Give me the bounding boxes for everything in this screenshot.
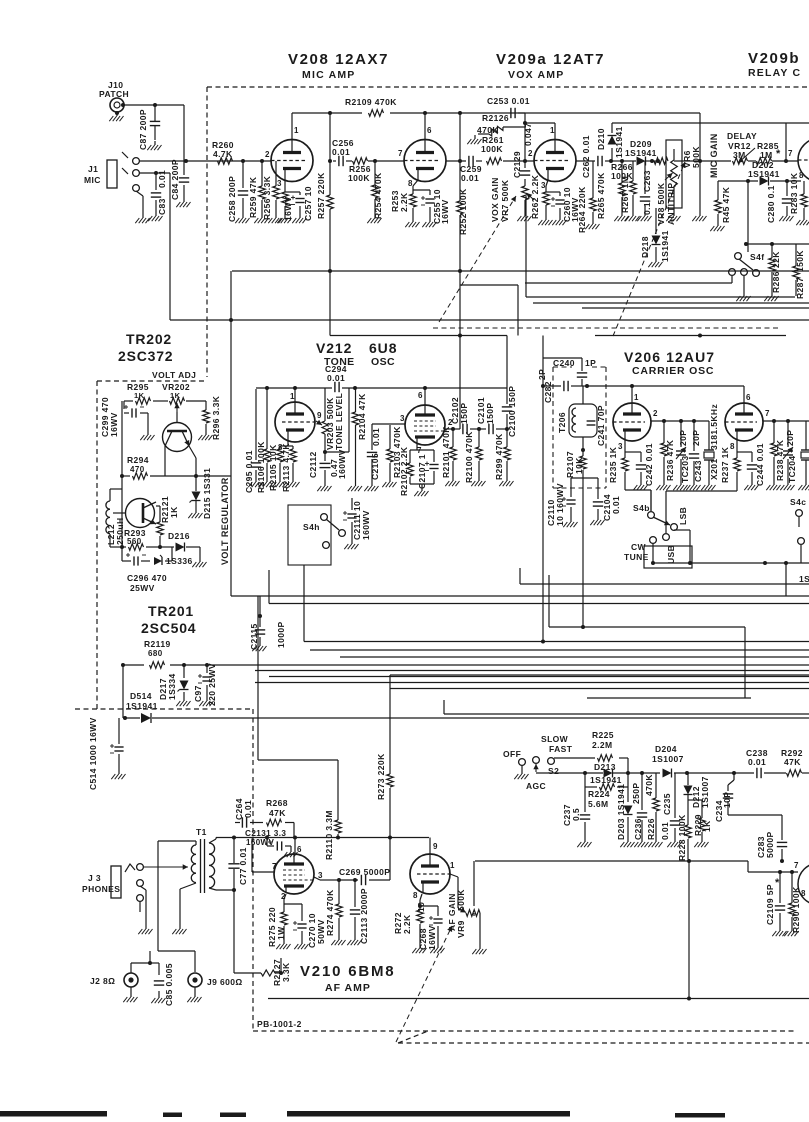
wire	[294, 388, 296, 402]
wire	[699, 113, 701, 212]
svg-text:R257 220K: R257 220K	[316, 172, 326, 219]
ground	[751, 481, 753, 485]
svg-text:C242 0.01: C242 0.01	[644, 443, 654, 486]
wire	[216, 837, 429, 839]
svg-text:1: 1	[550, 126, 555, 135]
svg-text:LSB: LSB	[678, 507, 688, 525]
svg-text:1S336: 1S336	[166, 556, 193, 566]
svg-text:C269 5000P: C269 5000P	[339, 867, 390, 877]
resistor R2104 47K	[352, 393, 367, 440]
ground	[242, 214, 244, 218]
svg-text:TR202: TR202	[126, 331, 172, 347]
wire	[582, 307, 809, 309]
wire	[354, 880, 356, 936]
svg-text:3: 3	[618, 442, 623, 451]
node	[698, 334, 702, 338]
node	[121, 663, 125, 667]
page edge bar	[220, 1113, 246, 1118]
svg-text:20P: 20P	[691, 430, 701, 446]
node	[194, 474, 198, 478]
svg-text:6: 6	[297, 845, 302, 854]
node	[785, 179, 789, 183]
svg-text:C2131 3.3: C2131 3.3	[245, 829, 286, 838]
svg-text:22K: 22K	[771, 251, 781, 268]
capacitor C97 (electrolytic)	[193, 663, 217, 706]
svg-text:R2109 470K: R2109 470K	[345, 97, 397, 107]
ground	[389, 478, 391, 482]
svg-text:0.01: 0.01	[243, 800, 253, 818]
wire	[139, 160, 271, 162]
ground	[338, 936, 340, 940]
ground	[206, 697, 208, 701]
wire	[478, 429, 480, 477]
ground	[717, 222, 719, 226]
diode D212 1S1007	[684, 776, 711, 808]
svg-text:R268: R268	[266, 798, 288, 808]
resistor R2102 2.2K	[399, 446, 413, 496]
svg-text:C236: C236	[633, 818, 643, 840]
wire	[206, 665, 208, 697]
svg-text:0.01: 0.01	[157, 170, 167, 188]
svg-text:250P: 250P	[631, 783, 641, 804]
wire	[625, 452, 641, 481]
svg-text:V209a 12AT7: V209a 12AT7	[496, 51, 605, 68]
capacitor C269 5000P	[339, 867, 390, 885]
ground	[118, 770, 120, 774]
resistor R2105 10K	[268, 444, 283, 491]
svg-text:2SC504: 2SC504	[141, 620, 196, 636]
wire	[355, 388, 357, 482]
diode D202	[748, 160, 780, 186]
ground	[584, 838, 586, 842]
svg-text:VOLT REGULATOR: VOLT REGULATOR	[220, 477, 230, 565]
resistor R261 100K	[481, 135, 504, 164]
svg-text:R256 3.3K: R256 3.3K	[262, 175, 272, 220]
resistor R285 1M	[757, 141, 782, 164]
svg-text:RELAY C: RELAY C	[748, 67, 801, 79]
node	[770, 242, 774, 246]
svg-text:D216: D216	[168, 531, 190, 541]
tube V210b (6BM8 triode)	[410, 842, 455, 900]
svg-text:3: 3	[277, 179, 282, 188]
wire	[110, 547, 200, 558]
capacitor C260 (electrolytic)	[551, 187, 580, 222]
resistor R294 470	[127, 455, 149, 479]
svg-text:V212: V212	[316, 340, 352, 356]
svg-text:T1: T1	[196, 827, 207, 837]
resistor R2107 10K	[565, 451, 586, 478]
svg-text:R235 1K: R235 1K	[608, 446, 618, 483]
svg-text:47K: 47K	[784, 757, 801, 767]
capacitor C262	[581, 135, 602, 178]
label C296 470 25WV	[127, 573, 167, 593]
wire	[581, 358, 583, 386]
resistor R228 100K	[677, 814, 691, 861]
node	[123, 716, 127, 720]
wire	[324, 452, 326, 482]
capacitor C2113 2000P	[350, 888, 369, 944]
capacitor C77 0.01	[228, 847, 248, 885]
wire	[444, 700, 809, 714]
node	[458, 269, 462, 273]
resistor R2113 4.7K	[281, 443, 296, 492]
wire	[543, 336, 744, 642]
svg-text:R228 100K: R228 100K	[677, 814, 687, 861]
wire	[584, 787, 586, 838]
svg-text:2.2K: 2.2K	[402, 914, 412, 934]
ground	[597, 516, 599, 520]
svg-text:1: 1	[290, 392, 295, 401]
wire	[525, 123, 555, 140]
wire	[805, 421, 807, 481]
switch S4c (partial)	[790, 497, 806, 544]
wire	[644, 161, 646, 212]
potentiometer VR7 VOX GAIN	[490, 177, 534, 222]
svg-text:R274 470K: R274 470K	[325, 889, 335, 936]
svg-text:C280 0.1: C280 0.1	[766, 185, 776, 223]
node	[620, 159, 624, 163]
node	[662, 419, 666, 423]
svg-text:1S1941: 1S1941	[625, 148, 657, 158]
ground	[779, 927, 781, 931]
svg-text:VR8 500K: VR8 500K	[656, 182, 666, 225]
capacitor C296 (electrolytic)	[126, 553, 146, 566]
svg-text:6: 6	[427, 126, 432, 135]
ground	[791, 927, 793, 931]
wire	[255, 389, 257, 478]
wire (dashed)	[253, 1030, 795, 1032]
resistor R265 470K	[596, 172, 625, 219]
wire (dashed)	[97, 380, 207, 382]
tube (bottom right, partial)	[798, 863, 809, 905]
resistor R257 220K	[316, 172, 333, 219]
resistor R253 2.2K	[390, 190, 416, 212]
svg-text:X201: X201	[709, 459, 719, 480]
wire (dashed)	[96, 381, 98, 709]
node	[153, 103, 157, 107]
svg-text:PHONES: PHONES	[82, 884, 120, 894]
wire (dashed)	[75, 708, 253, 710]
wire	[651, 490, 690, 564]
wire	[592, 161, 594, 220]
tube V206b (12AU7 triode)	[725, 393, 770, 451]
resistor R274 470K	[325, 889, 342, 936]
svg-text:R273 220K: R273 220K	[376, 753, 386, 800]
wire	[269, 570, 809, 604]
resistor R264 220K	[577, 186, 596, 233]
wire	[180, 883, 196, 925]
switch S4b	[633, 503, 688, 530]
wire	[209, 838, 216, 844]
wire	[292, 112, 700, 114]
wire	[478, 127, 525, 134]
resistor R2121 1K	[157, 496, 179, 535]
svg-text:0.047: 0.047	[523, 123, 533, 146]
ground	[412, 218, 414, 222]
capacitor C299 (electrolytic)	[100, 397, 144, 437]
ground	[771, 292, 773, 296]
wire	[420, 894, 438, 944]
ground	[743, 292, 745, 296]
ground	[283, 940, 285, 944]
jack J2 8ohm	[90, 973, 138, 987]
svg-text:TC203: TC203	[680, 455, 690, 483]
node	[746, 179, 750, 183]
wire	[255, 682, 809, 684]
wire	[582, 482, 584, 627]
node	[353, 878, 357, 882]
node	[732, 771, 736, 775]
svg-text:R262 2.2K: R262 2.2K	[530, 174, 540, 219]
wire	[693, 421, 695, 481]
pointer to AF GAIN (dashed)	[396, 926, 452, 1042]
wire	[688, 800, 702, 838]
svg-text:TC204: TC204	[787, 455, 797, 483]
node	[388, 836, 392, 840]
tube V208a (12AX7 triode)	[265, 126, 313, 188]
svg-text:9: 9	[317, 411, 322, 420]
ground	[109, 112, 123, 121]
ground	[437, 944, 439, 948]
ground	[524, 212, 526, 216]
svg-text:6: 6	[746, 393, 751, 402]
capacitor C256	[332, 138, 354, 166]
wire	[536, 772, 809, 774]
ground	[655, 258, 657, 262]
wire	[389, 425, 391, 478]
svg-text:20P: 20P	[785, 430, 795, 446]
wire	[791, 872, 793, 927]
svg-text:7: 7	[788, 149, 793, 158]
svg-text:C77 0.01: C77 0.01	[238, 847, 248, 885]
resistor R256 3.3K	[262, 175, 279, 220]
svg-text:R299 470K: R299 470K	[494, 433, 504, 480]
svg-text:R259 47K: R259 47K	[248, 176, 258, 218]
diode D213 1S1941	[590, 762, 622, 785]
wire (dashed bus)	[433, 327, 780, 329]
ground	[701, 838, 703, 842]
inductor L212 250uH	[106, 501, 125, 545]
resistor R293 560	[124, 528, 146, 550]
node	[258, 614, 262, 618]
ground	[279, 478, 281, 482]
ground	[158, 994, 160, 998]
wire	[269, 676, 809, 678]
resistor R262 2.2K	[530, 174, 549, 219]
svg-text:C243: C243	[693, 460, 703, 482]
wire	[795, 244, 797, 296]
capacitor C268 (electrolytic)	[416, 902, 443, 950]
svg-text:R267 1M: R267 1M	[620, 176, 630, 213]
wire	[687, 773, 689, 859]
capacitor C2109 5P	[765, 877, 785, 925]
diode D209	[625, 139, 657, 166]
svg-text:6U8: 6U8	[369, 340, 397, 356]
svg-text:3M: 3M	[733, 150, 746, 160]
svg-text:R286: R286	[771, 271, 781, 293]
node	[685, 771, 689, 775]
wire	[158, 841, 196, 845]
svg-text:R265 470K: R265 470K	[596, 172, 606, 219]
tube V209b (12AT7 triode, partial)	[798, 138, 809, 182]
potentiometer VR9 AF GAIN	[447, 889, 480, 938]
wire	[571, 478, 598, 518]
wire	[717, 181, 719, 222]
svg-text:0.01: 0.01	[660, 822, 670, 840]
wire	[176, 412, 178, 423]
node	[778, 870, 782, 874]
svg-text:CARRIER OSC: CARRIER OSC	[632, 365, 714, 377]
node	[687, 859, 691, 863]
wire	[139, 901, 141, 912]
svg-text:SLOW: SLOW	[541, 734, 569, 744]
resistor R2127 3.3K	[261, 959, 291, 986]
svg-text:D210: D210	[596, 128, 606, 150]
svg-text:D215 1S331: D215 1S331	[202, 468, 212, 519]
node	[423, 386, 427, 390]
node	[541, 384, 545, 388]
capacitor C2100 150P	[502, 386, 517, 437]
svg-text:C296 470: C296 470	[127, 573, 167, 583]
svg-text:R2105 10K: R2105 10K	[268, 444, 278, 491]
ground	[521, 770, 523, 774]
svg-text:R294: R294	[127, 455, 149, 465]
svg-text:C263: C263	[642, 170, 652, 192]
svg-text:TONE LEVEL: TONE LEVEL	[334, 393, 344, 450]
svg-text:2: 2	[528, 149, 533, 158]
wire	[424, 388, 426, 405]
ground	[255, 478, 257, 482]
wire	[773, 421, 775, 481]
wire	[576, 160, 611, 162]
wire	[124, 401, 148, 431]
capacitor C87	[138, 109, 160, 150]
wire	[506, 388, 508, 429]
resistor R2126 470K	[477, 113, 509, 136]
svg-text:0.01: 0.01	[371, 428, 381, 446]
svg-text:R224: R224	[588, 789, 610, 799]
svg-text:1M: 1M	[760, 150, 773, 160]
capacitor C294	[325, 364, 347, 392]
ground	[803, 216, 805, 220]
wire	[351, 498, 353, 540]
wire (dashed)	[398, 1031, 428, 1043]
svg-text:C235: C235	[662, 793, 672, 815]
node	[679, 419, 683, 423]
svg-text:C2105: C2105	[370, 453, 380, 480]
wire	[123, 104, 184, 106]
resistor R299 470K	[494, 433, 510, 480]
svg-text:2SC372: 2SC372	[118, 348, 173, 364]
resistor R2109 470K	[345, 97, 397, 116]
svg-text:OFF: OFF	[503, 749, 521, 759]
svg-text:7: 7	[794, 861, 799, 870]
resistor R2101 470K	[441, 426, 456, 478]
svg-text:2: 2	[653, 409, 658, 418]
wire	[546, 180, 560, 216]
svg-text:3: 3	[400, 414, 405, 423]
svg-text:VOX AMP: VOX AMP	[508, 69, 564, 81]
svg-text:C2109 5P: C2109 5P	[765, 884, 775, 925]
pointer to VR9 (wiper)	[458, 908, 466, 913]
svg-text:1S1941: 1S1941	[660, 230, 670, 262]
svg-text:8: 8	[730, 442, 735, 451]
tube V206a (12AU7 triode)	[613, 393, 658, 451]
ground	[592, 220, 594, 224]
node	[458, 159, 462, 163]
wire	[230, 271, 232, 596]
node	[336, 836, 340, 840]
svg-text:2.2M: 2.2M	[592, 740, 613, 750]
resistor R235 1K	[608, 446, 628, 483]
node	[786, 419, 790, 423]
wire	[195, 476, 197, 509]
diode D218	[640, 230, 670, 262]
wire	[525, 196, 527, 297]
jack J3 PHONES	[82, 864, 143, 902]
svg-text:R2100 470K: R2100 470K	[464, 431, 474, 483]
capacitor C259	[460, 156, 482, 183]
svg-text:10 160WV: 10 160WV	[555, 483, 565, 526]
svg-text:V208 12AX7: V208 12AX7	[288, 51, 389, 68]
svg-text:C84 200P: C84 200P	[170, 159, 180, 200]
node	[229, 318, 233, 322]
svg-text:USB: USB	[666, 545, 676, 564]
jack J1 MIC	[84, 152, 139, 191]
svg-text:C282: C282	[543, 381, 553, 403]
wire	[259, 596, 261, 642]
ground	[145, 925, 147, 929]
svg-text:16WV: 16WV	[427, 925, 437, 950]
switch S4h	[288, 505, 345, 565]
resistor R259 47K	[248, 176, 265, 218]
ground	[374, 214, 376, 218]
svg-text:DELAY: DELAY	[727, 131, 757, 141]
resistor R238 47K	[771, 439, 785, 481]
node	[609, 159, 613, 163]
wire	[121, 476, 123, 547]
node	[293, 836, 297, 840]
label V209b RELAY	[748, 50, 801, 79]
node	[784, 561, 788, 565]
wire	[632, 161, 634, 212]
capacitor C253	[487, 96, 530, 118]
wire	[252, 839, 274, 873]
resistor R2103 470K	[387, 426, 402, 478]
wire	[674, 160, 731, 162]
wire	[781, 815, 783, 861]
node	[373, 159, 377, 163]
wire	[746, 243, 809, 245]
svg-text:1K: 1K	[170, 391, 181, 400]
ground	[299, 214, 301, 218]
capacitor C83	[151, 170, 167, 215]
svg-text:D204: D204	[655, 744, 677, 754]
capacitor C257 (electrolytic)	[283, 186, 313, 221]
node	[328, 111, 332, 115]
svg-text:C262 0.01: C262 0.01	[581, 135, 591, 178]
node	[523, 159, 527, 163]
wire	[779, 872, 781, 927]
svg-text:1S1941: 1S1941	[748, 169, 780, 179]
svg-text:1S1941: 1S1941	[614, 126, 624, 158]
capacitor C243 20P	[689, 430, 703, 482]
svg-text:VOX GAIN: VOX GAIN	[490, 177, 500, 222]
svg-text:C2113 2000P: C2113 2000P	[359, 888, 369, 944]
wire	[554, 758, 628, 773]
svg-text:R2101 470K: R2101 470K	[441, 426, 451, 478]
resistor R295 1K	[127, 382, 151, 404]
